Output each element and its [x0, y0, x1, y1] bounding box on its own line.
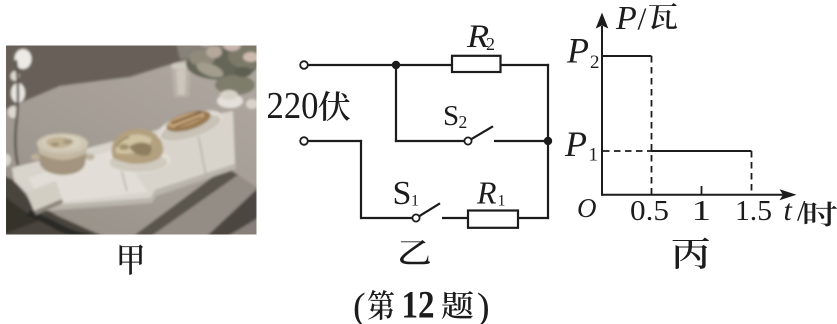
svg-text:2: 2: [486, 34, 495, 54]
node junction top: [392, 61, 400, 69]
switch S1 (open): [412, 203, 468, 221]
resistor R1: [468, 211, 518, 228]
svg-text:2: 2: [590, 52, 600, 73]
dashed level line P1: [603, 150, 652, 152]
wire R2 to right rail: [501, 64, 550, 66]
label 乙: [400, 240, 430, 264]
photo 甲: electric warming tray with dishes on a table: [1, 36, 268, 239]
terminal bottom (supply): [300, 137, 308, 145]
wire bottom terminal to S1: [308, 140, 413, 219]
graph x-axis with arrow: [601, 189, 797, 200]
svg-text:1: 1: [692, 195, 712, 227]
wire top terminal to R2: [308, 64, 452, 66]
svg-text:O: O: [577, 193, 597, 223]
svg-text:/: /: [638, 1, 647, 37]
svg-text:0.5: 0.5: [630, 195, 669, 227]
svg-text:P: P: [564, 124, 587, 164]
terminal top (supply): [300, 61, 308, 69]
svg-text:2: 2: [459, 112, 468, 132]
label S1: [393, 175, 420, 212]
plants top right: [186, 48, 258, 80]
label P1: [564, 124, 598, 166]
switch S2 (open): [464, 126, 548, 144]
svg-text:(: (: [353, 286, 366, 324]
label 丙: [673, 237, 709, 269]
label 甲: [119, 245, 143, 275]
svg-text:S: S: [393, 175, 412, 212]
svg-text:P: P: [566, 31, 589, 71]
tick label 1: [692, 195, 712, 227]
label P/瓦 (y-axis): [615, 0, 677, 37]
label O (origin): [577, 193, 597, 223]
svg-text:220: 220: [267, 85, 319, 127]
wire R1 to right rail: [518, 217, 549, 219]
svg-text:12: 12: [402, 284, 435, 324]
dashed drop line at t=1.5: [751, 151, 753, 194]
label 220伏 (supply voltage): [267, 85, 350, 127]
svg-text:1: 1: [411, 193, 419, 210]
middle plate with food: [107, 148, 171, 173]
right plate with loaf: [154, 103, 227, 148]
svg-text:t: t: [784, 194, 793, 227]
svg-text:S: S: [443, 100, 459, 132]
label t/时 (x-axis): [784, 194, 837, 228]
svg-text:1: 1: [498, 193, 506, 210]
label P2: [566, 31, 600, 74]
glass: [171, 66, 191, 97]
tick label 0.5: [630, 195, 669, 227]
pot: [38, 146, 87, 175]
wire junction down to S2: [395, 65, 465, 142]
label S2: [443, 100, 467, 132]
tick at t=1: [701, 186, 703, 195]
label R2: [466, 18, 495, 55]
label R1: [476, 175, 506, 211]
tick label 1.5: [735, 195, 772, 227]
svg-text:P: P: [615, 0, 637, 37]
svg-text:R: R: [476, 175, 497, 211]
curve segment P1 (0.5 to 1.5): [652, 150, 752, 152]
node junction right rail / S2: [544, 137, 552, 145]
graph y-axis with arrow: [596, 13, 609, 196]
svg-text:1: 1: [589, 145, 599, 166]
svg-text:1.5: 1.5: [735, 195, 772, 227]
wire right rail vertical: [547, 64, 549, 219]
curve segment P2 (0 to 0.5): [602, 55, 652, 57]
warming tray: [12, 111, 235, 206]
resistor R2: [452, 56, 501, 72]
dashed drop line at t=0.5: [651, 56, 653, 194]
svg-text:): ): [477, 286, 490, 324]
left white flowers: [15, 49, 32, 69]
caption (第 12 题): [353, 284, 490, 324]
